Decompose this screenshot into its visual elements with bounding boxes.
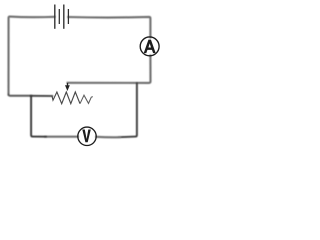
battery B1: long plate 1 — [54, 5, 56, 29]
battery B1: long plate 2 — [63, 5, 65, 29]
wire: middle horizontal run, voltmeter tap to rheostat — [31, 95, 53, 97]
wire: voltmeter branch corner and vertical up to middle wire — [31, 96, 46, 137]
rheostat RH1 wiper arrowhead — [65, 85, 70, 91]
wire: battery positive lead across top to ammeter — [68, 17, 150, 37]
wire: bottom run left segment from voltmeter — [45, 136, 78, 138]
rheostat RH1 resistor zigzag tail (free end) — [80, 95, 93, 104]
rheostat RH1 wiper arrow stem — [67, 83, 69, 87]
battery B1: short plate 2 — [67, 9, 69, 24]
voltmeter U2 circle — [78, 127, 96, 145]
ammeter U1 label A — [144, 40, 156, 54]
wire: bottom run right segment into voltmeter — [96, 136, 120, 139]
wire: middle horizontal run, left side to voltmeter tap — [9, 94, 32, 95]
wire: battery negative lead across top and down left side — [9, 17, 55, 95]
wire: branch from slider rail down to bottom-right corner (node T) — [119, 83, 137, 137]
rheostat RH1 resistor zigzag — [52, 92, 80, 104]
battery B1: short plate 1 — [58, 9, 60, 24]
voltmeter U2 label V — [82, 130, 91, 143]
wire: ammeter output down and slider rail across to rheostat wiper — [68, 56, 151, 83]
ammeter U1 circle — [140, 37, 159, 56]
